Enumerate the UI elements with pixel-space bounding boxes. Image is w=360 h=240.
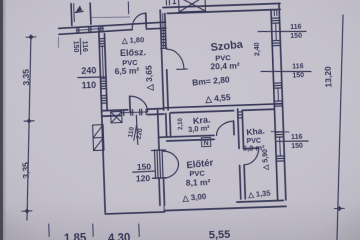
windows in left outer wall [99,38,104,40]
svg-text:2,10: 2,10 [178,117,184,130]
wall: room top wall [163,3,280,7]
door leaf below hall bottom wall [136,115,138,144]
svg-text:3,35: 3,35 [20,69,31,86]
svg-text:150: 150 [290,33,302,40]
door D2 hall to room [167,49,184,70]
svg-text:4,30: 4,30 [108,232,131,240]
chimney shaft outside left wall [93,125,104,151]
wall: upper-left room middle stub [89,3,92,24]
svg-text:3,0 m²: 3,0 m² [188,123,211,134]
dark left photo edge [0,0,3,240]
chimney box with X [179,0,206,12]
svg-text:1,85: 1,85 [64,232,87,240]
wall below glazed door [158,178,161,205]
svg-text:240: 240 [81,65,96,76]
window W3 right wall [275,131,283,133]
flue box on hall bottom wall [111,112,122,123]
svg-text:8,1 m²: 8,1 m² [186,177,211,188]
wall: left outer wall [99,28,105,213]
label window 116/150 on left wall [71,38,88,55]
svg-text:2,40: 2,40 [254,42,261,56]
svg-text:N: N [203,140,208,147]
hatch kitchen wall top [238,111,242,113]
svg-text:13,20: 13,20 [323,66,334,88]
wall: right outer wall [279,3,286,199]
hatch at top-right corner [273,10,275,16]
svg-text:6,5 m²: 6,5 m² [114,65,139,76]
wall: hall bottom wall [102,109,128,112]
left dimension line [21,35,38,220]
right dimension line [329,15,351,240]
stub line above hall near door [127,2,129,14]
door D1 in top wall of hall [145,13,148,27]
hatch on partition wall [161,29,165,31]
wall: upper-left room left wall stub [70,4,73,26]
svg-text:150: 150 [291,143,303,150]
svg-text:110: 110 [81,80,96,91]
window W1 right wall [271,17,279,19]
door D5 kitchen [244,147,259,150]
window band in hall bottom wall [121,111,148,114]
bottom dimension ticks [48,224,50,236]
svg-text:116: 116 [292,63,304,70]
faint shelf line in upper-left room [91,16,130,18]
wall: top wall of hall and upper-left room [59,22,166,28]
tick marks left of chimney [165,0,167,4]
bottom outer walls [237,200,283,202]
window W2 right wall [274,82,282,84]
svg-text:△ 3,65: △ 3,65 [144,65,155,92]
wall: room bottom wall [164,104,282,108]
svg-text:116: 116 [81,41,88,53]
svg-text:116: 116 [291,134,303,141]
svg-text:150: 150 [72,41,79,53]
svg-text:3,35: 3,35 [20,162,31,179]
wall: kitchen left wall [238,109,239,148]
door D3 in hall bottom wall [129,96,132,112]
svg-text:116: 116 [290,24,302,31]
wall: pantry left wall [158,110,159,149]
svg-text:150: 150 [292,72,304,79]
wall: pantry bottom wall [159,135,214,137]
faint ledge below top-left corner [57,37,60,47]
svg-text:150: 150 [137,162,152,172]
glazed double door on vestibule wall [154,150,157,178]
door D4 pantry [233,121,235,135]
boxed N symbol [201,137,210,146]
door size 110/220 [127,124,145,141]
svg-text:20,4 m²: 20,4 m² [210,60,240,71]
svg-text:△ 5,90: △ 5,90 [262,149,270,171]
wall: partition hall/room [160,10,163,110]
window in upper-left room bottom wall [77,28,104,30]
north flag doodle [75,5,82,12]
leader line for kitchen window [271,131,289,133]
svg-text:120: 120 [136,173,151,183]
svg-text:5,55: 5,55 [209,229,231,240]
svg-text:△ 1,80: △ 1,80 [121,35,145,45]
svg-text:Kha.: Kha. [246,125,265,137]
svg-text:Elősz.: Elősz. [120,47,146,58]
